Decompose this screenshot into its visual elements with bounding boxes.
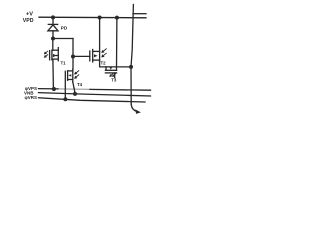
transistor T4 gate bar and lead <box>64 71 66 99</box>
transistor T4 drain stub <box>68 70 73 72</box>
transistor T2 source stub <box>93 59 100 61</box>
light arrow T4 a <box>75 71 79 74</box>
transistor T1 source stub <box>52 58 58 60</box>
node dot sense node <box>51 37 55 41</box>
transistor T4 body arrow <box>68 74 71 76</box>
svg-text:VPD: VPD <box>23 18 34 24</box>
wire top right stub <box>133 13 146 15</box>
wire column output line <box>131 5 133 105</box>
wire T1 drain from node <box>52 39 54 51</box>
wire sense node horizontal <box>53 38 73 40</box>
wire rail to diode <box>52 17 54 24</box>
svg-text:PD: PD <box>61 25 68 30</box>
svg-text:+V: +V <box>26 11 33 17</box>
light arrow T1 b <box>45 55 48 58</box>
node dot T4 gate on phiVRS <box>63 97 67 101</box>
wire rail phiVRS <box>39 98 146 102</box>
wire T1 source descend <box>52 59 55 89</box>
node dot rail-PD junction <box>51 15 55 19</box>
transistor T4 channel bar <box>67 71 69 81</box>
wire diode to node <box>52 31 54 39</box>
transistor T4 source stub <box>68 79 73 81</box>
node dot T2 drain on rail <box>98 16 102 20</box>
transistor T1 gate bar <box>49 51 51 60</box>
transistor T3 body arrow <box>110 67 113 70</box>
transistor T2 drain stub <box>93 50 100 52</box>
transistor T1 channel bar <box>51 50 53 60</box>
svg-text:T2: T2 <box>101 61 107 66</box>
wire column output hook <box>131 104 138 112</box>
light arrow T4 b <box>75 75 79 78</box>
wire T2 gate lead <box>73 55 90 57</box>
node dot T1 source on phiVPS <box>52 87 56 91</box>
transistor T2 body arrow <box>94 54 98 57</box>
wire top rail VPD <box>39 16 146 19</box>
transistor T3 right stub <box>116 67 118 71</box>
wire node corner down <box>72 39 74 57</box>
transistor T3 channel bar <box>105 69 116 71</box>
wire T4 source descend <box>73 82 75 94</box>
node dot T3 bias on rail <box>115 16 119 20</box>
light arrow T2 a <box>102 49 106 53</box>
light arrow T3 a <box>110 74 113 77</box>
light arrow T1 a <box>45 51 48 54</box>
svg-text:T4: T4 <box>77 82 83 87</box>
output arrowhead <box>135 109 141 114</box>
wire rail phiVPS right <box>90 88 151 91</box>
wire rail VNB <box>39 93 151 96</box>
wire T4 drain-source line <box>72 69 74 82</box>
wire rail phiVPS faded mid <box>58 88 90 91</box>
wire T3 right terminal to rail <box>116 18 118 67</box>
photodiode PD cathode bar <box>48 23 57 25</box>
node dot column junction <box>129 65 133 69</box>
svg-text:T3: T3 <box>111 78 117 83</box>
svg-text:φVRS: φVRS <box>25 95 37 100</box>
photodiode PD triangle <box>48 25 58 31</box>
transistor T1 drain stub <box>52 49 58 51</box>
svg-text:T1: T1 <box>61 61 67 66</box>
wire rail phiVPS <box>39 88 59 90</box>
wire T4 drain from node <box>72 57 74 70</box>
wire T2 drain-source line <box>100 18 131 67</box>
light arrow T3 b <box>113 74 116 77</box>
node dot 3way corner <box>71 55 75 59</box>
node dot T4 source on VNB <box>73 92 77 96</box>
light arrow T2 b <box>102 53 106 57</box>
transistor T3 gate bar <box>105 72 116 74</box>
wire T3 gate lead <box>114 73 116 78</box>
transistor T2 channel bar <box>92 50 94 63</box>
transistor T1 body arrow <box>53 54 56 58</box>
transistor T1 body stub <box>56 55 58 57</box>
transistor T3 left stub <box>105 67 107 71</box>
transistor T2 gate bar <box>89 51 91 61</box>
transistor T1 side bar <box>57 48 59 61</box>
